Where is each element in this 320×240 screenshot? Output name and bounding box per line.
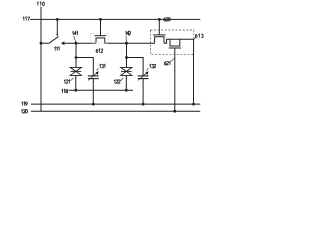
transistor A gate bar [153,34,166,36]
leader 122 [121,78,124,81]
label 621 [164,61,170,65]
capacitor 132 arrow [138,73,147,80]
switch 111 fixed contact arrowhead [61,41,64,45]
wire bowtie 121 bottom lead [75,75,77,90]
junction dot cap 132 on rail 119 [142,103,145,106]
transistor 612 gate bar [95,35,107,37]
wire capacitor 131 bottom lead [92,79,94,105]
junction dot node 141 [75,42,78,45]
label 620 [164,18,171,22]
transistor 612 gate lead [100,19,102,35]
label 613 [195,34,203,38]
light box around 612 [91,34,109,44]
label 612 [96,49,103,53]
leader 121 [71,78,74,81]
transistor B channel staple [170,39,180,46]
wire node 142 branch down [126,43,128,67]
label 110 [37,2,44,6]
leader 131 [96,68,98,70]
label 119 [22,102,28,106]
transistor B gate lead 621 down to rail 120 [174,48,176,111]
leader 132 [146,68,148,70]
label 142 [125,31,130,35]
junction dot cell1 branch [75,56,78,59]
capacitor 131 arrow [88,73,97,80]
wire bottom rail 119 [31,103,200,105]
wire capacitor 131 branch [76,58,93,76]
wire node 141 branch down [75,43,77,67]
label 132 [149,64,155,68]
junction dot 621 on rail 120 [173,110,176,113]
dashed box 613 [150,30,193,54]
diode pair 121 bowtie [70,67,81,75]
wire top rail 117 [30,18,200,20]
junction dot 122 on line 118 [125,89,128,92]
wire line 118 [69,89,134,91]
transistor B gate bar [169,47,181,49]
transistor A gate lead from node 620 [158,19,160,35]
junction dot right vertical on rail 119 [192,103,195,106]
wire capacitor 132 bottom lead [142,79,144,105]
wire bottom rail 120 [31,110,200,112]
wire main horizontal segment left of 612 [64,42,96,44]
junction dot rail at 620 [158,18,161,21]
wire bowtie 122 bottom lead [125,75,127,90]
label 122 [114,80,120,84]
junction dot cell2 branch [125,56,128,59]
label 118 [62,89,68,93]
junction dot node on left vertical [40,42,43,45]
diode pair 122 bowtie [121,67,132,75]
junction dot rail at switch contact [56,18,59,21]
junction dot rail at 612 gate [99,18,102,21]
switch upper contact tip dot [56,34,58,36]
label 131 [99,64,105,68]
wire jog A to B and to right bend [164,39,194,43]
wire main horizontal segment 612 to A [105,42,155,44]
wire switch upper contact from rail [56,19,58,34]
label 141 [72,31,77,35]
leader 141 [74,36,76,43]
leader 621 [171,58,174,61]
label 117 [23,17,30,21]
junction dot node 142 [125,42,128,45]
transistor 612 channel staple [96,38,105,43]
leader 613 [194,38,196,40]
leader 142 [125,36,127,43]
switch S111 lever [49,36,58,43]
junction dot cap 131 on rail 119 [92,103,95,106]
wire node to switch lever [41,42,49,44]
capacitor 132 plates [138,76,149,79]
wire capacitor 132 branch [127,58,144,76]
capacitor 131 plates [88,76,99,79]
label 120 [21,110,27,114]
junction dot 121 on line 118 [74,89,77,92]
label 121 [64,80,70,84]
wire left vertical from label 110 down to rail 120 [40,7,42,112]
wire right vertical down to rail 119 [193,39,195,104]
transistor A channel staple [155,37,164,44]
label 111 [54,47,59,51]
